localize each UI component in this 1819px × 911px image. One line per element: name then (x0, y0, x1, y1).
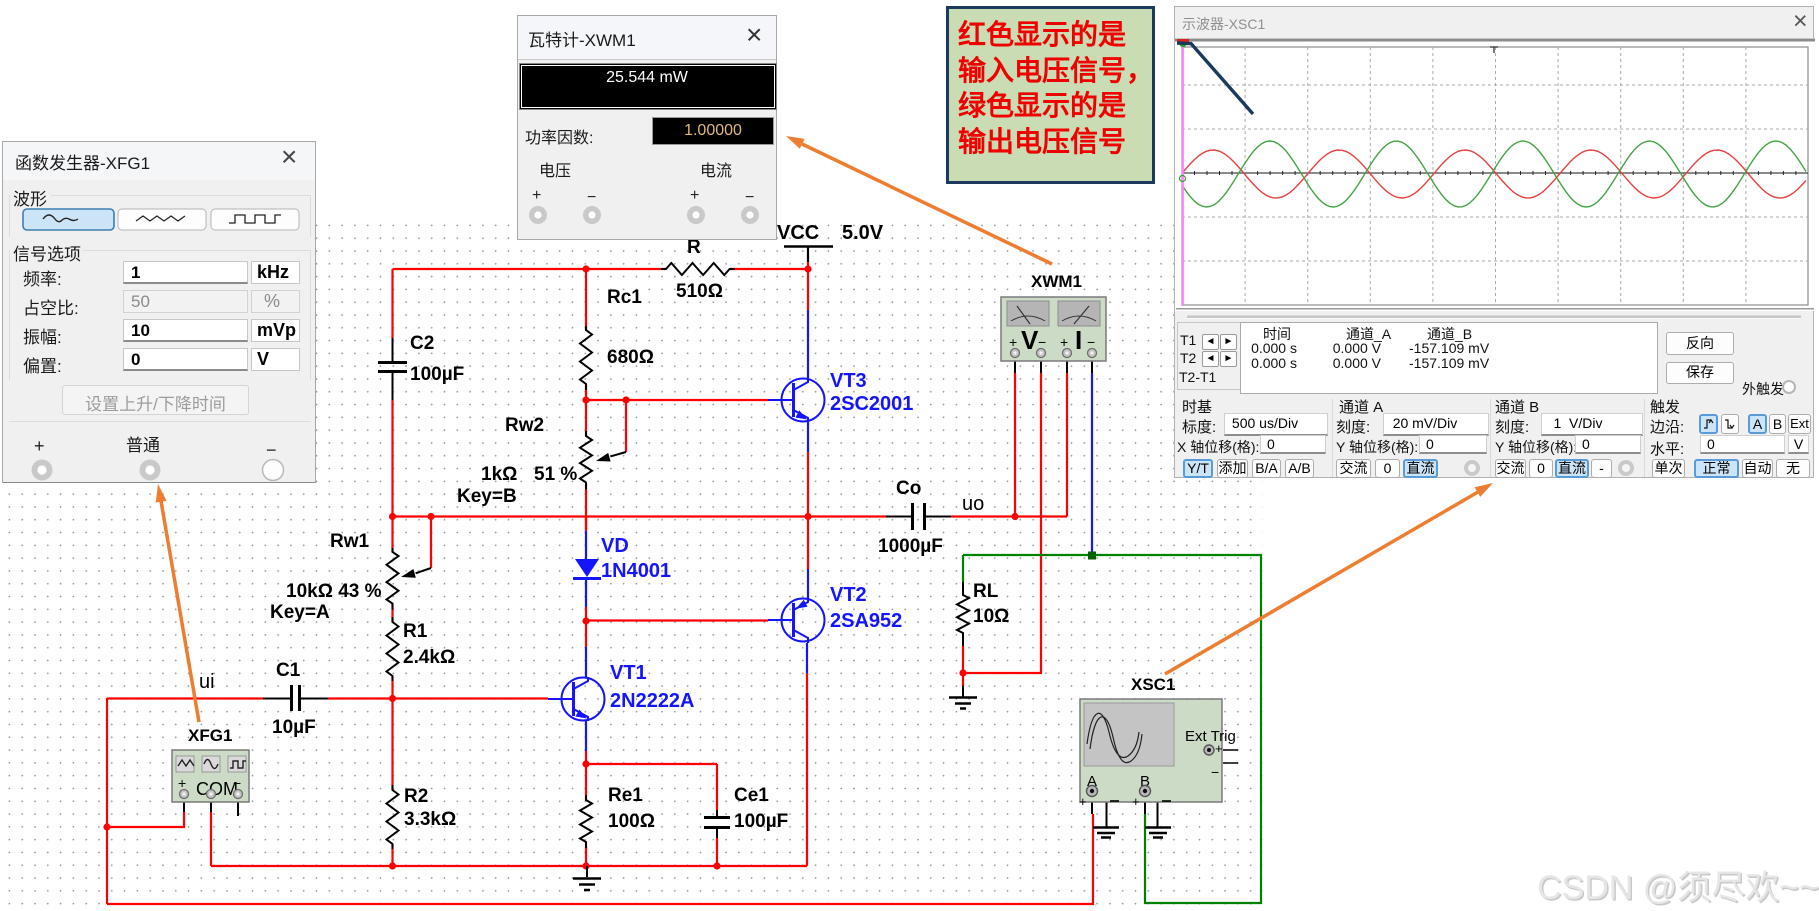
触发 group (1650, 396, 1680, 417)
通道A group (1339, 396, 1383, 417)
svg-text:XFG1: XFG1 (188, 726, 232, 745)
wire: VD anode from mid bus (585, 517, 587, 532)
svg-text:VD: VD (601, 535, 629, 557)
svg-text:Ext Trig: Ext Trig (1185, 728, 1236, 745)
junction: RL bottom node (959, 669, 966, 676)
svg-text:51 %: 51 % (534, 464, 577, 485)
resistor R 510ohm (661, 263, 735, 275)
ground (RL) (962, 686, 964, 697)
svg-text:−: − (233, 775, 241, 791)
wire: Rw1 wiper drop (430, 517, 432, 569)
svg-text:VT2: VT2 (830, 584, 867, 606)
resistor R1 2.4k (387, 617, 399, 681)
cursor 1 line (1177, 43, 1253, 114)
wire: VT2 emitter lead (blue) (807, 569, 809, 598)
wire: Rc1 top (585, 269, 587, 330)
wire: I- probe drop XWM1 (blue) (1091, 373, 1093, 555)
svg-text:100µF: 100µF (734, 811, 788, 832)
potentiometer Rw2 wiper (610, 452, 626, 456)
svg-text:2.4kΩ: 2.4kΩ (403, 647, 455, 668)
wire: VT2 emitter to uo node (807, 516, 809, 569)
svg-text:Key=B: Key=B (457, 486, 517, 507)
svg-text:XWM1: XWM1 (1031, 272, 1082, 291)
wire: R1 bottom to base node (391, 676, 393, 698)
wire: VT2 base node down to VT1 collector (585, 621, 587, 647)
wire: mid bus (uo net) (393, 515, 1068, 517)
wire: ui net XFG1+ to C1 (107, 697, 263, 699)
power factor (525, 124, 593, 148)
annotation note box (946, 6, 1155, 184)
transistor VT2 2SA952 (PNP) (768, 598, 825, 643)
potentiometer arrow Rw2 (596, 453, 611, 462)
svg-text:COM: COM (196, 779, 238, 799)
waveform buttons (17, 208, 317, 238)
wire: Re1 bottom to gnd bus (585, 842, 587, 866)
wire: XFG1 + lead (107, 812, 184, 827)
potentiometer arrow Rw1 (401, 569, 416, 578)
svg-text:C2: C2 (410, 333, 434, 354)
svg-text:510Ω: 510Ω (676, 281, 723, 302)
junction: uo / V+ (1011, 513, 1018, 520)
junction: R2 / gnd bus (389, 862, 396, 869)
wire: VCC node to VT3 collector (807, 262, 809, 310)
wire: scope chB net (green) (963, 555, 1261, 903)
svg-text:−: − (1038, 334, 1046, 350)
svg-text:+: + (1079, 794, 1087, 809)
svg-text:XSC1: XSC1 (1131, 675, 1175, 694)
power display (519, 63, 777, 110)
terminal group labels (539, 157, 571, 181)
svg-text:R2: R2 (404, 786, 428, 807)
wire: base node to R2 (391, 698, 393, 790)
svg-text:I: I (1075, 325, 1082, 355)
svg-text:2SC2001: 2SC2001 (830, 393, 913, 415)
potentiometer Rw1 wiper (416, 568, 431, 573)
junction: Rw2 wiper tap (622, 396, 629, 403)
svg-text:3.3kΩ: 3.3kΩ (404, 809, 456, 830)
junction: VT2 emitter / mid bus (804, 513, 811, 520)
junction: VCC node (804, 265, 811, 272)
时基 group (1182, 396, 1212, 417)
resistor Rc1 680ohm (580, 326, 592, 390)
rise/fall button (62, 385, 249, 415)
svg-text:−: − (1211, 764, 1219, 780)
svg-text:680Ω: 680Ω (607, 347, 654, 368)
svg-text:+: + (178, 775, 186, 791)
svg-text:+: + (1215, 741, 1223, 756)
svg-text:Co: Co (896, 478, 921, 499)
junction: Re1 / gnd bus (582, 862, 589, 869)
channel A trace (red) (1182, 150, 1806, 198)
wire: top rail right segment (R to VCC node) (730, 268, 808, 270)
svg-text:2SA952: 2SA952 (830, 610, 902, 632)
wire: V- probe drop XWM1 to RL bottom (963, 373, 1041, 673)
wire: Rw2 bottom lead to mid bus (585, 484, 587, 531)
wire: Rw1 top lead (391, 517, 393, 553)
wire: bottom loop to scope A (107, 814, 1093, 904)
graph border (1182, 47, 1808, 305)
junction: C2/mid bus (389, 513, 396, 520)
pin stub XFG1 minus (237, 794, 239, 816)
svg-text:1000µF: 1000µF (878, 536, 943, 557)
wire: V+ probe drop XWM1 (1014, 373, 1016, 517)
wire: Rw2 top lead (585, 400, 587, 436)
svg-text:uo: uo (962, 493, 984, 515)
svg-text:R1: R1 (403, 621, 428, 642)
wire: ground bus (211, 865, 807, 867)
wire: top rail left segment (C2 top to R) (393, 268, 667, 270)
transistor VT1 2N2222A (NPN) (548, 677, 605, 721)
svg-text:RL: RL (973, 581, 999, 602)
wire: XFG1 COM lead (210, 812, 212, 866)
svg-text:10kΩ 43 %: 10kΩ 43 % (286, 581, 382, 602)
junction: VT1 emitter node (582, 760, 589, 767)
svg-text:100Ω: 100Ω (608, 811, 655, 832)
time cursor (magenta) (1182, 47, 1184, 305)
group separators (1332, 399, 1333, 477)
junction: top rail / Rc1 (582, 265, 589, 272)
反向/保存 buttons (1666, 332, 1734, 355)
wire: VD cathode to VT2 base node (585, 607, 587, 621)
diode VD 1N4001 (573, 559, 601, 579)
svg-text:+: + (1060, 334, 1068, 350)
instrument icon XWM1 (1001, 297, 1106, 361)
svg-text:100µF: 100µF (410, 364, 464, 385)
svg-text:5.0V: 5.0V (842, 222, 884, 244)
wire: Ce1 bottom to gnd bus (716, 838, 718, 866)
cursor readout block (1177, 322, 1241, 390)
wire: VT1 collector lead (blue) (585, 647, 587, 678)
svg-text:1N4001: 1N4001 (601, 560, 671, 582)
svg-text:Rw1: Rw1 (330, 531, 370, 552)
potentiometer Rw2 body (580, 431, 592, 490)
svg-text:10µF: 10µF (272, 717, 316, 738)
svg-text:+: + (1009, 334, 1017, 350)
wire: RL bottom lead (962, 646, 964, 673)
annotation arrow to XSC1 panel (1165, 483, 1493, 674)
wire: VT2 collector lead (blue) (806, 643, 808, 673)
junction: XFG1 + loop (103, 823, 110, 830)
component labels (black) (270, 222, 1009, 832)
wire: VT2 base horizontal (586, 619, 768, 621)
pin stubs XFG1 (184, 798, 211, 812)
grid (1182, 47, 1808, 305)
svg-text:ui: ui (199, 671, 215, 693)
resistor RL 10ohm (957, 582, 969, 646)
junction: Rw1 wiper tap (427, 513, 434, 520)
junction: VD cathode node (582, 617, 589, 624)
wire: Rw1 to R1 (391, 604, 393, 622)
dotted workspace grid (0, 219, 1263, 911)
annotation arrow to XFG1 panel (156, 484, 199, 722)
pin stubs XWM1 (1015, 357, 1092, 373)
svg-text:Rc1: Rc1 (607, 287, 642, 308)
wire: C1 right lead to base node (328, 697, 393, 699)
capacitor C1 10uF (292, 685, 300, 711)
svg-text:VCC: VCC (777, 222, 819, 244)
wire: VT3 emitter to mid bus (807, 452, 809, 516)
output terminals (34, 436, 45, 457)
wire: VT3 emitter (blue) (807, 422, 809, 452)
transistor VT3 2SC2001 (NPN) (768, 378, 825, 422)
pin stubs XSC1 (1092, 796, 1145, 814)
field rows (23, 265, 62, 290)
wire: VT1 emitter node (586, 751, 717, 810)
wire: left loop vertical (106, 698, 108, 904)
instrument panel XFG1 (function generator) (2, 141, 316, 483)
svg-text:VT3: VT3 (830, 370, 867, 392)
svg-text:V: V (1021, 325, 1039, 355)
svg-text:VT1: VT1 (610, 662, 647, 684)
svg-text:C1: C1 (276, 660, 301, 681)
watermark (1537, 860, 1819, 909)
scope display (1175, 35, 1815, 320)
instrument icon XSC1 (1079, 699, 1238, 809)
svg-text:1kΩ: 1kΩ (481, 464, 517, 485)
readout table (1240, 322, 1658, 394)
wire: RL ground stub (962, 673, 964, 686)
junction: Ce1 / gnd bus (713, 862, 720, 869)
junction: scope chB green dot (1088, 552, 1096, 560)
wire: VCC stem (807, 247, 809, 262)
svg-text:+: + (1132, 794, 1140, 809)
device labels (blue) (601, 370, 913, 712)
svg-text:Key=A: Key=A (270, 602, 330, 623)
wire: RL top lead (green) (962, 555, 964, 582)
instrument panel XSC1 (oscilloscope) (1174, 6, 1814, 478)
capacitor Ce1 100uF (704, 818, 730, 828)
wire: R2 bottom to gnd bus (391, 844, 393, 866)
cursor markers (1177, 39, 1189, 42)
通道B group (1495, 396, 1539, 417)
junction: C1 / R1 / R2 / VT1 base (389, 695, 396, 702)
resistor R2 3.3k (387, 785, 399, 849)
junction: base net B3 (582, 396, 589, 403)
svg-text:−: − (1087, 334, 1095, 350)
annotation arrow to XWM1 panel (786, 136, 1052, 264)
ground (Re1) (586, 866, 588, 877)
VCC power bar (784, 245, 833, 248)
wire: VT3 collector lead (blue) (807, 310, 809, 379)
ground (scope A) (1097, 791, 1107, 827)
resistor Re1 100ohm (580, 795, 592, 848)
svg-text:10Ω: 10Ω (973, 606, 1009, 627)
wire: C2 branch vertical (391, 269, 393, 516)
time axis (1182, 172, 1808, 174)
svg-text:Re1: Re1 (608, 785, 643, 806)
wire: I+ probe drop XWM1 (1066, 373, 1068, 517)
wire: VT2 collector column (806, 673, 808, 866)
instrument icon XFG1 (172, 750, 249, 802)
wire: Rw2 wiper drop (625, 400, 627, 452)
svg-text:R: R (687, 237, 701, 258)
svg-text:Rw2: Rw2 (505, 415, 544, 436)
instrument panel XWM1 (wattmeter) (517, 15, 777, 240)
potentiometer Rw1 body (387, 548, 399, 610)
wire: VD leads (blue) (585, 531, 587, 607)
ground (scope B) (1151, 791, 1158, 827)
wire: VT1 base horizontal (393, 697, 549, 699)
wire: Rc1 bottom to node B3 (585, 384, 587, 400)
capacitor C2 100uF (378, 363, 407, 372)
wire: VT1 emitter lead (blue) (585, 721, 587, 751)
capacitor Co 1000uF (913, 503, 925, 530)
channel B trace (green) (1182, 141, 1806, 207)
svg-text:Ce1: Ce1 (734, 785, 769, 806)
wire: VT3 base net horizontal (586, 399, 768, 401)
svg-text:2N2222A: 2N2222A (610, 690, 695, 712)
